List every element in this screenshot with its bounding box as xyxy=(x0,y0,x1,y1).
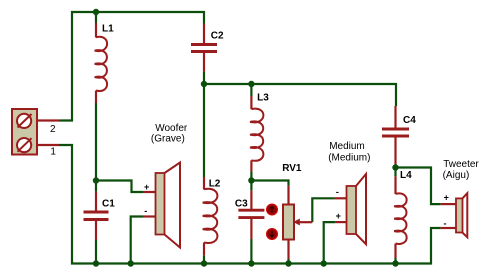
svg-text:Tweeter: Tweeter xyxy=(443,159,479,170)
svg-text:(Medium): (Medium) xyxy=(328,152,370,163)
svg-text:Woofer: Woofer xyxy=(155,123,188,134)
svg-text:2: 2 xyxy=(50,124,56,135)
svg-text:C3: C3 xyxy=(235,198,248,209)
svg-text:C2: C2 xyxy=(211,31,224,42)
svg-text:L2: L2 xyxy=(209,179,221,190)
svg-text:L4: L4 xyxy=(400,170,412,181)
svg-text:RV1: RV1 xyxy=(282,163,302,174)
svg-text:C4: C4 xyxy=(403,115,416,126)
svg-text:+: + xyxy=(444,193,449,203)
svg-text:L3: L3 xyxy=(257,93,269,104)
svg-text:Medium: Medium xyxy=(329,141,365,152)
svg-text:1: 1 xyxy=(50,147,56,158)
svg-text:(Grave): (Grave) xyxy=(151,134,185,145)
svg-text:+: + xyxy=(336,211,341,221)
svg-text:-: - xyxy=(444,219,447,229)
svg-text:(Aigu): (Aigu) xyxy=(443,170,470,181)
svg-text:-: - xyxy=(144,206,147,216)
svg-text:-: - xyxy=(336,187,339,197)
svg-text:L1: L1 xyxy=(102,24,114,35)
svg-text:+: + xyxy=(144,182,149,192)
svg-text:C1: C1 xyxy=(102,199,115,210)
